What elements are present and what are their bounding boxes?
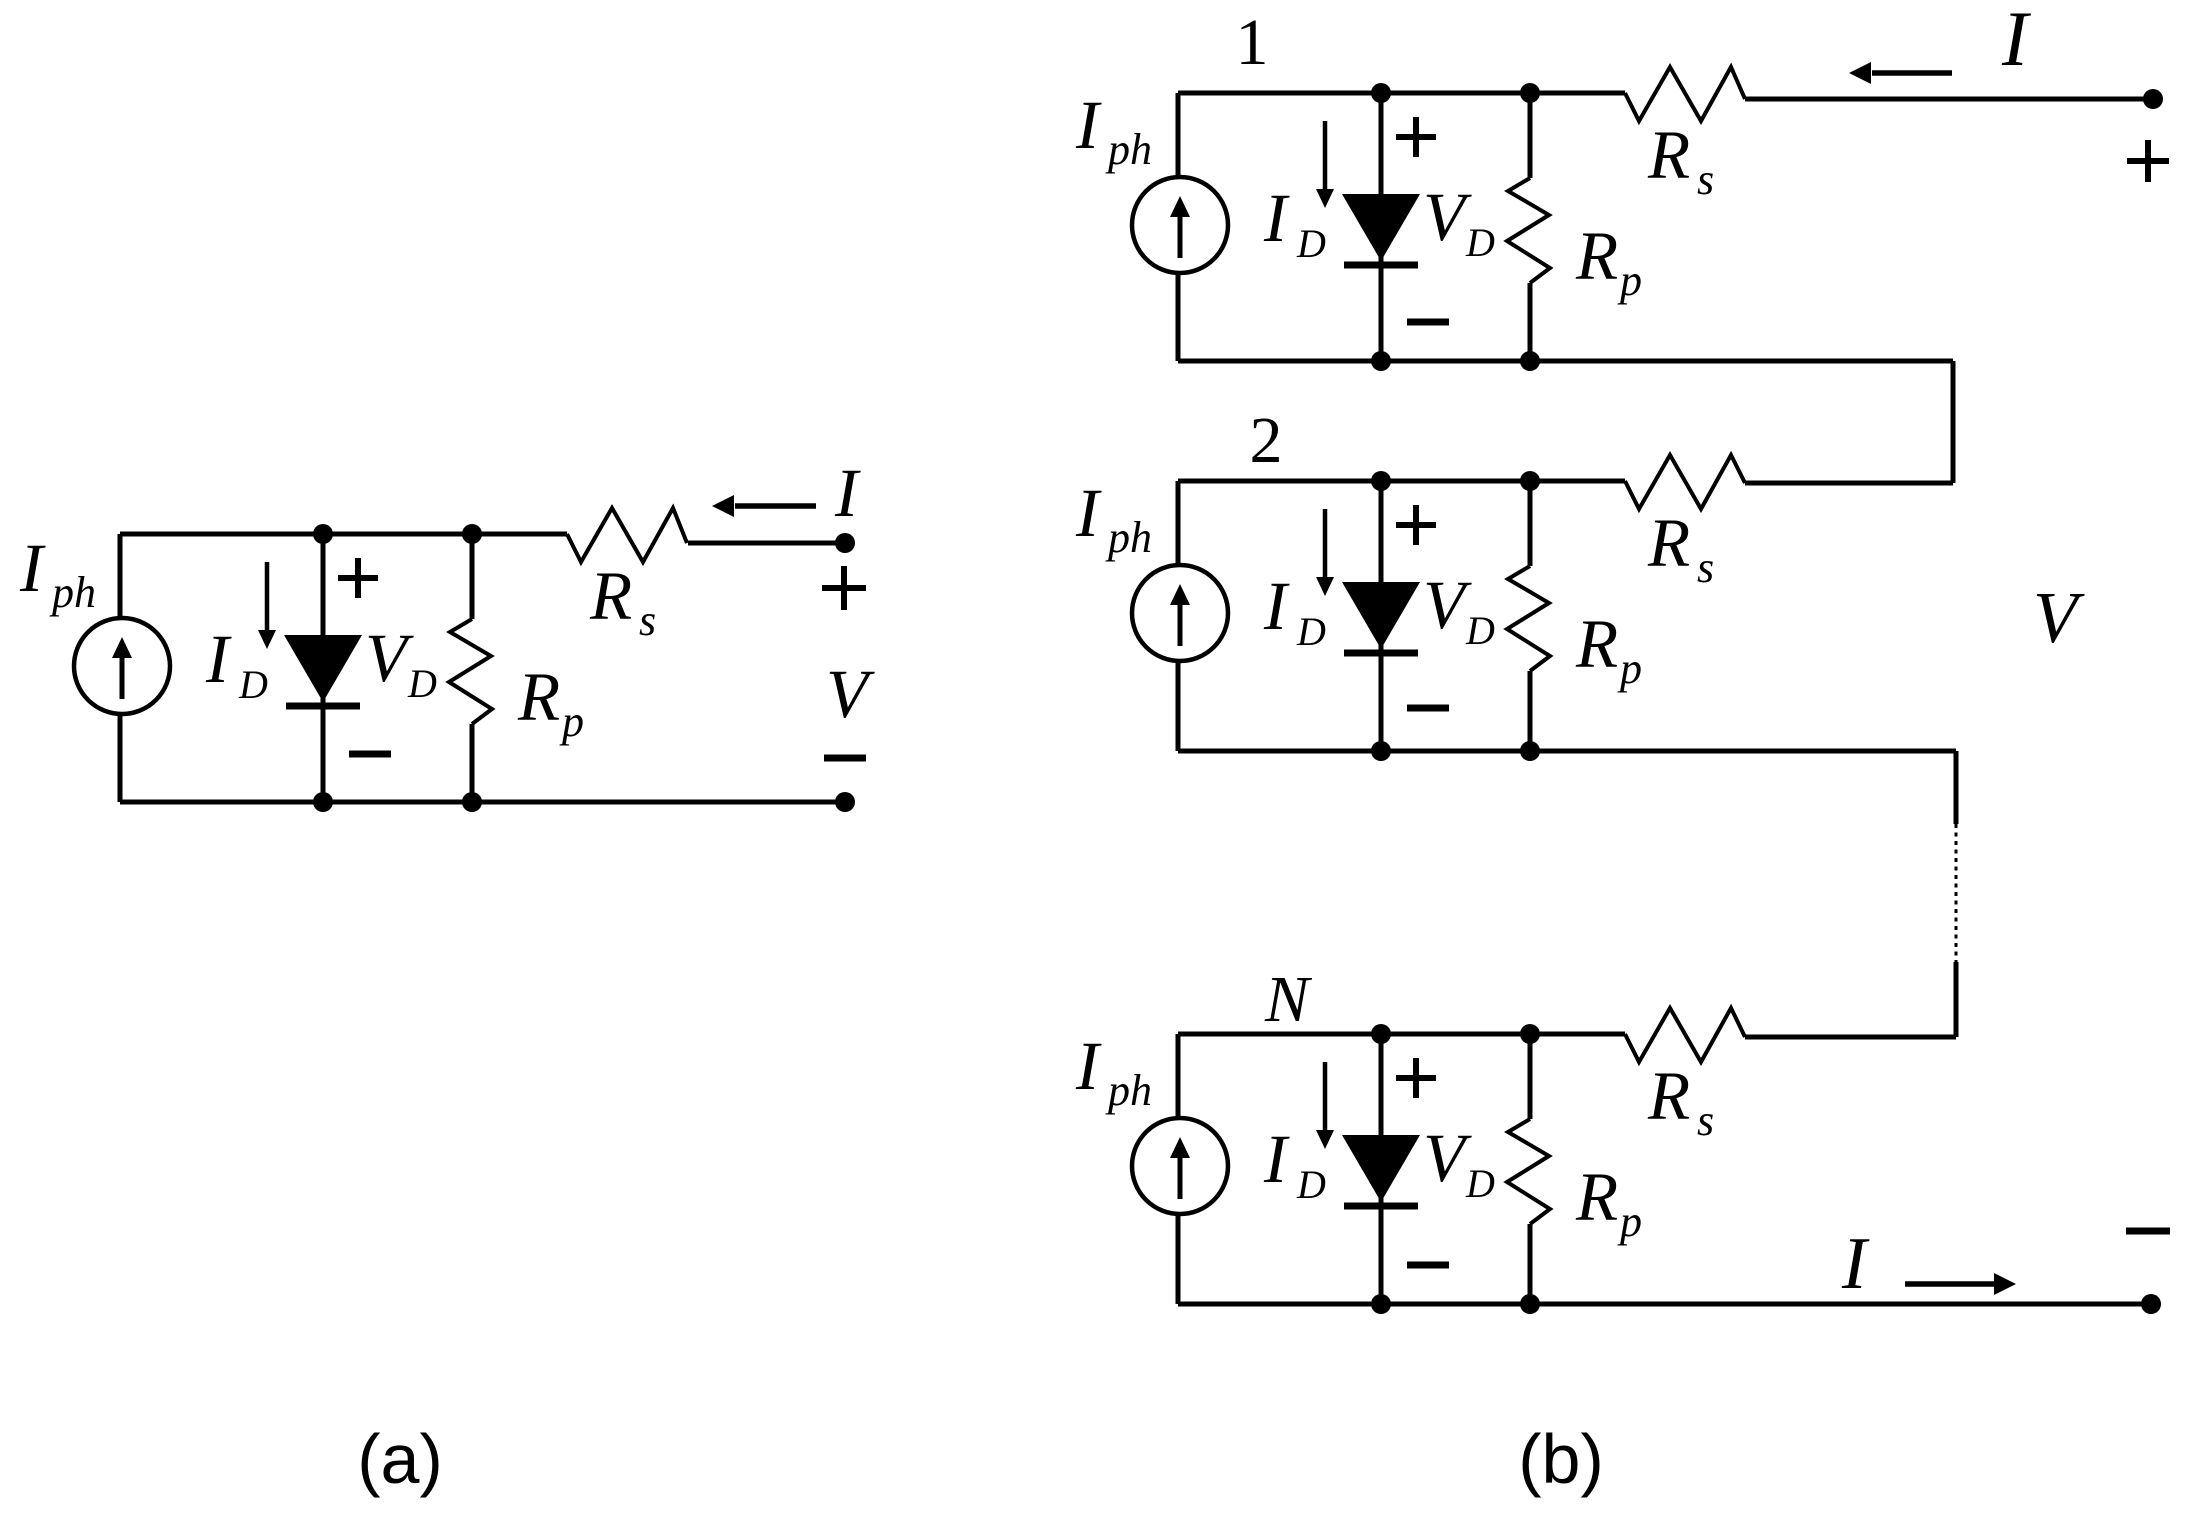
svg-text:I: I [1263, 180, 1290, 256]
svg-text:s: s [1697, 1096, 1714, 1145]
current source I_ph (cell N) [1132, 1118, 1228, 1214]
svg-text:I: I [1075, 1028, 1102, 1104]
node junction diode-bottom (cell 2) [1371, 741, 1391, 761]
svg-text:ph: ph [1105, 513, 1152, 562]
svg-text:R: R [1575, 218, 1618, 294]
wire bottom rail (cell 1) [1178, 359, 1953, 364]
wire top rail (cell 1) [1178, 91, 1625, 96]
svg-text:R: R [1575, 606, 1618, 682]
node junction Rp-top (cell 1) [1520, 83, 1540, 103]
wire left (cell 1) [1176, 93, 1181, 361]
plus sign output (b) [2127, 158, 2169, 164]
diode D (cell a) [284, 635, 362, 702]
svg-text:D: D [407, 661, 437, 706]
wire Rs to output terminal (cell 1) [1745, 97, 2153, 102]
resistor R_s (cell 1) [1625, 67, 1745, 121]
node junction diode-top (cell N) [1371, 1024, 1391, 1044]
wire diode branch (cell a) [321, 534, 326, 802]
arrow I_D (cell a) [265, 562, 270, 631]
wire diode branch (cell 2) [1379, 481, 1384, 751]
resistor R_p (cell a) [470, 534, 475, 619]
wire bottom rail (a) [120, 800, 845, 805]
resistor R_s (cell 2) [1625, 455, 1745, 509]
diode D (cell 1) [1342, 194, 1420, 261]
svg-text:I: I [205, 621, 232, 697]
svg-text:s: s [1697, 543, 1714, 592]
current source I_ph (cell 1) [1132, 177, 1228, 273]
svg-text:s: s [1697, 155, 1714, 204]
node junction Rp-top (cell a) [462, 524, 482, 544]
diode D (cell 2) [1342, 582, 1420, 649]
minus sign V_D (cell a) [349, 751, 391, 758]
wire left (cell a) [118, 534, 123, 802]
output terminal dot - (b) [2141, 1294, 2161, 1314]
resistor R_s (cell a) [567, 508, 687, 562]
arrow I_D (cell 2) [1323, 509, 1328, 578]
svg-text:D: D [1465, 1161, 1495, 1206]
resistor R_p (cell N) [1528, 1034, 1533, 1119]
svg-text:(a): (a) [357, 1420, 443, 1498]
svg-text:D: D [1296, 221, 1326, 266]
svg-text:s: s [639, 596, 656, 645]
svg-text:V: V [2033, 577, 2085, 658]
wire bottom rail (cell 2) [1178, 749, 1956, 754]
minus sign V_D (cell 1) [1407, 319, 1449, 326]
node junction diode-top (cell a) [313, 524, 333, 544]
arrow I_D (cell N) [1323, 1062, 1328, 1131]
svg-text:ph: ph [1105, 125, 1152, 174]
arrow current I (a) [735, 503, 816, 509]
node junction diode-top (cell 1) [1371, 83, 1391, 103]
arrow current I (b top) [1872, 70, 1952, 76]
svg-text:I: I [1075, 475, 1102, 551]
output terminal dot - (a) [835, 792, 855, 812]
wire Rs exit to series link (cell 2) [1745, 481, 1953, 486]
wire diode branch (cell 1) [1379, 93, 1384, 361]
svg-text:p: p [559, 697, 584, 746]
node junction diode-bottom (cell 1) [1371, 351, 1391, 371]
diode D (cell N) [1342, 1135, 1420, 1202]
svg-text:R: R [589, 558, 632, 634]
svg-text:I: I [19, 530, 46, 606]
node junction Rp-top (cell 2) [1520, 471, 1540, 491]
node junction Rp-bottom (cell 1) [1520, 351, 1540, 371]
wire Rs to output terminal (a) [688, 541, 845, 546]
wire series link cell1-cell2 [1951, 361, 1956, 483]
wire top rail (cell 2) [1178, 479, 1625, 484]
node junction Rp-bottom (cell N) [1520, 1294, 1540, 1314]
arrow I_D (cell 1) [1323, 121, 1328, 190]
minus sign V_D (cell 2) [1407, 705, 1449, 712]
svg-text:V: V [1423, 179, 1472, 255]
wire top rail (cell N) [1178, 1032, 1625, 1037]
svg-text:I: I [1075, 87, 1102, 163]
node junction diode-bottom (cell a) [313, 792, 333, 812]
svg-text:D: D [238, 662, 268, 707]
svg-text:ph: ph [49, 568, 96, 617]
wire Rs exit to series link (cell N) [1745, 1035, 1956, 1040]
svg-text:R: R [1647, 1058, 1690, 1134]
svg-text:I: I [2001, 0, 2032, 82]
svg-text:D: D [1296, 609, 1326, 654]
svg-text:ph: ph [1105, 1066, 1152, 1115]
output terminal dot + (b) [2143, 89, 2163, 109]
wire top rail (cell a) [120, 532, 567, 537]
svg-text:R: R [1647, 117, 1690, 193]
wire series link dotted (omitted cells) [1955, 824, 1958, 962]
svg-text:D: D [1296, 1162, 1326, 1207]
current source I_ph (cell 2) [1132, 565, 1228, 661]
plus sign V_D (cell 2) [1396, 522, 1436, 528]
resistor R_p (cell 1) [1528, 93, 1533, 178]
svg-text:(b): (b) [1518, 1420, 1604, 1498]
svg-text:D: D [1465, 220, 1495, 265]
wire left (cell 2) [1176, 481, 1181, 751]
svg-text:R: R [1575, 1159, 1618, 1235]
svg-text:V: V [826, 656, 875, 732]
svg-text:I: I [1263, 568, 1290, 644]
node junction Rp-top (cell N) [1520, 1024, 1540, 1044]
plus sign V_D (cell N) [1396, 1075, 1436, 1081]
plus sign V_D (cell a) [338, 575, 378, 581]
svg-text:V: V [1423, 1120, 1472, 1196]
current source I_ph (cell a) [74, 618, 170, 714]
svg-text:I: I [1263, 1121, 1290, 1197]
node junction diode-bottom (cell N) [1371, 1294, 1391, 1314]
resistor R_s (cell N) [1625, 1008, 1745, 1062]
svg-text:R: R [1647, 505, 1690, 581]
wire series link to cell N (solid) [1954, 962, 1959, 1037]
svg-text:p: p [1617, 256, 1642, 305]
node junction diode-top (cell 2) [1371, 471, 1391, 491]
output terminal dot + (a) [835, 533, 855, 553]
svg-text:D: D [1465, 608, 1495, 653]
plus sign V_D (cell 1) [1396, 134, 1436, 140]
minus sign V_D (cell N) [1407, 1262, 1449, 1269]
wire bottom rail (cell N) [1178, 1302, 2151, 1307]
svg-text:2: 2 [1250, 404, 1283, 477]
node junction Rp-bottom (cell 2) [1520, 741, 1540, 761]
wire series link cell2 down (solid) [1954, 751, 1959, 824]
svg-text:N: N [1264, 963, 1313, 1036]
svg-text:1: 1 [1236, 6, 1269, 79]
wire left (cell N) [1176, 1034, 1181, 1304]
svg-text:p: p [1617, 1197, 1642, 1246]
svg-text:V: V [365, 620, 414, 696]
svg-text:V: V [1423, 567, 1472, 643]
arrow current I (b bottom) [1905, 1281, 1994, 1287]
svg-text:p: p [1617, 644, 1642, 693]
node junction Rp-bottom (cell a) [462, 792, 482, 812]
minus sign output (a) [824, 755, 866, 762]
resistor R_p (cell 2) [1528, 481, 1533, 566]
svg-text:I: I [834, 455, 861, 531]
minus sign output (b) [2126, 1228, 2170, 1235]
plus sign output (a) [822, 585, 866, 591]
svg-text:I: I [1841, 1223, 1870, 1305]
wire diode branch (cell N) [1379, 1034, 1384, 1304]
svg-text:R: R [517, 659, 560, 735]
